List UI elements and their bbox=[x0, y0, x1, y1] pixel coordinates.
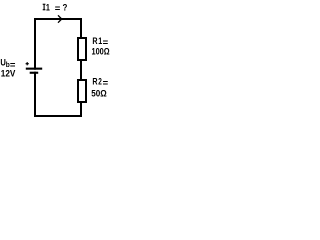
svg-text:?: ? bbox=[63, 2, 68, 13]
svg-text:12V: 12V bbox=[1, 68, 16, 79]
svg-text:50Ω: 50Ω bbox=[91, 88, 107, 99]
svg-text:1: 1 bbox=[46, 2, 51, 13]
svg-text:=: = bbox=[55, 4, 61, 15]
svg-text:=: = bbox=[103, 78, 109, 89]
svg-text:2: 2 bbox=[98, 77, 102, 88]
svg-text:100Ω: 100Ω bbox=[92, 46, 110, 57]
svg-text:R: R bbox=[92, 77, 97, 88]
